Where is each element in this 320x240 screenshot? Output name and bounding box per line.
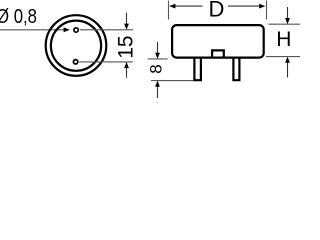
dim 15 lower line (126, 67, 128, 78)
dim 8 upper arrowhead (down) (155, 53, 160, 59)
dim 15 upper line (126, 13, 128, 25)
pin hole bottom (73, 60, 77, 64)
dim 8 upper extension line (body bottom level) (148, 58, 168, 60)
dim D line left segment (175, 5, 203, 7)
side view body (172, 25, 264, 58)
svg-text:H: H (276, 28, 291, 51)
top view outer case circle (46, 15, 107, 76)
svg-text:8: 8 (146, 64, 165, 73)
extension line from bottom pin (79, 61, 132, 63)
dim H lower arrowhead (up) (285, 57, 290, 63)
svg-text:D: D (209, 0, 225, 22)
pin hole top (74, 28, 78, 32)
dim H upper line (287, 7, 289, 19)
side view left pin (194, 58, 201, 80)
extension line from top pin (80, 29, 133, 31)
dim D line right segment (228, 5, 260, 7)
dim D right arrowhead (259, 4, 265, 9)
svg-text:Ø 0,8: Ø 0,8 (0, 6, 37, 28)
dim 15 lower arrowhead (up) (124, 62, 129, 68)
dim 15 upper arrowhead (down) (124, 24, 129, 30)
dim H lower extension line (266, 56, 300, 58)
side view bottom tab (212, 50, 224, 57)
dim H upper extension line (269, 23, 301, 25)
dim 8 upper line (157, 42, 159, 54)
dim D left arrowhead (169, 4, 175, 9)
dim H lower line (287, 62, 289, 78)
dim H upper arrowhead (down) (285, 18, 290, 24)
dim 8 lower line (157, 86, 159, 98)
leader line to pin hole (0, 29, 64, 31)
dim 8 lower extension line (pin tip level) (151, 80, 196, 82)
top view inner case circle (51, 21, 101, 71)
leader arrowhead (64, 27, 70, 32)
dim D right extension line (266, 1, 268, 20)
side view right pin (233, 58, 239, 80)
dim 8 lower arrowhead (up) (155, 81, 160, 87)
dim D left extension line (168, 1, 170, 20)
svg-text:15: 15 (114, 35, 137, 58)
